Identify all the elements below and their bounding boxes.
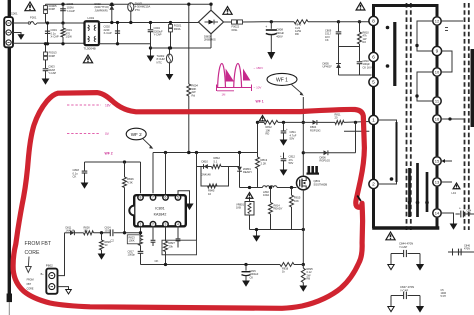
svg-text:NTC: NTC <box>157 60 162 64</box>
svg-text:400V: 400V <box>276 34 283 38</box>
fusible resistor F0005 <box>45 4 47 23</box>
warning triangle transformer top <box>356 3 365 10</box>
svg-text:PTC: PTC <box>135 8 140 12</box>
wire thick bottom return bar <box>372 226 439 229</box>
IC801 pin 7 <box>150 195 155 200</box>
svg-text:READY: READY <box>274 207 283 211</box>
wire Vref node <box>85 161 141 163</box>
wire bridge top to degauss <box>210 4 212 10</box>
secondary winding loop 12-9 <box>417 21 433 51</box>
fuse F001 <box>13 22 28 24</box>
svg-text:RB: RB <box>307 277 311 281</box>
IC801 pin 4 <box>175 222 180 227</box>
right edge winding bar <box>471 49 474 127</box>
IC801 pin 3 <box>163 222 168 227</box>
transformer pin 15 <box>433 157 441 165</box>
svg-text:10 1: 10 1 <box>467 213 472 216</box>
svg-text:6: 6 <box>372 55 375 61</box>
wire pin 12 output <box>441 20 463 22</box>
svg-text:100A: 100A <box>263 193 269 197</box>
svg-text:1N4148: 1N4148 <box>66 229 75 232</box>
svg-text:Y-CAP: Y-CAP <box>399 245 407 249</box>
waveform WF2 dashed level 0V <box>67 133 100 135</box>
wire pin 14 to ground <box>441 213 453 224</box>
svg-text:8: 8 <box>372 19 375 25</box>
svg-text:CORE: CORE <box>25 250 41 256</box>
transformer pin 1 <box>369 115 378 124</box>
wire pin 1 drop <box>140 227 142 233</box>
secondary winding column <box>436 26 439 46</box>
resistor R813 <box>257 122 259 157</box>
wire IC Vcc riser pin7 <box>152 153 154 194</box>
warning triangle at bridge <box>223 7 232 15</box>
ground at IC pin 5 <box>178 191 190 204</box>
svg-text:2N4148: 2N4148 <box>202 173 212 177</box>
svg-text:13: 13 <box>435 179 440 184</box>
svg-text:X-CAP: X-CAP <box>51 35 59 39</box>
svg-text:TL5004B: TL5004B <box>84 46 96 50</box>
op-amp IC801 KA3842 PWM controller <box>134 195 186 226</box>
svg-text:1: 1 <box>372 118 375 124</box>
wire Q801 source drop <box>302 190 304 265</box>
wire aux stub <box>344 130 369 132</box>
primary winding bar <box>393 22 396 86</box>
svg-text:FROM FBT: FROM FBT <box>25 241 52 247</box>
transformer pin 12 <box>433 17 441 25</box>
wire pin 6 riser <box>165 153 167 195</box>
capacitor C808 bulk <box>270 20 273 23</box>
svg-text:WF 1: WF 1 <box>276 77 288 83</box>
wire gate drive <box>240 187 263 189</box>
capacitor C813 under pin 4 <box>177 227 179 238</box>
resistor R823 under pin 1 <box>140 233 142 235</box>
svg-text:CK: CK <box>73 175 77 179</box>
svg-text:4: 4 <box>177 222 179 226</box>
svg-text:103J: 103J <box>105 229 111 232</box>
transformer pin 11 <box>433 97 441 105</box>
transformer pin 2 <box>369 179 378 188</box>
svg-text:JUMP(WR): JUMP(WR) <box>95 8 108 12</box>
svg-text:12: 12 <box>435 18 440 23</box>
svg-text:10: 10 <box>435 69 440 74</box>
connector SC001 <box>4 17 13 47</box>
svg-text:C2: C2 <box>111 239 115 243</box>
svg-text:5.1: 5.1 <box>214 159 218 163</box>
wire pin 16 output <box>441 118 464 120</box>
wire top degauss <box>46 3 212 5</box>
svg-text:2.2K: 2.2K <box>261 161 267 165</box>
wire B+ rail <box>262 21 294 23</box>
wire pins 9-10 loop <box>441 51 452 72</box>
wire B+ to pin 8 <box>339 21 370 23</box>
fusible resistor F0021 <box>170 23 172 49</box>
fusible resistor F0013 with C003 Y-cap to ground <box>45 44 47 52</box>
IC801 pin 8 <box>138 195 143 200</box>
warning triangle pin 13 <box>453 183 460 189</box>
zener ZD801 <box>239 153 241 167</box>
svg-text:KA3842: KA3842 <box>154 213 167 217</box>
IC801 pin 1 <box>138 222 143 227</box>
svg-text:Rd: Rd <box>363 40 367 44</box>
svg-text:1KB: 1KB <box>236 206 241 210</box>
wire pin 13 output <box>441 181 452 183</box>
svg-text:CORE: CORE <box>27 287 34 290</box>
svg-text:FROM: FROM <box>27 279 34 282</box>
capacitor C846 right edge <box>448 251 474 253</box>
capacitor C005 <box>62 4 64 23</box>
warning triangle top-left <box>25 2 35 11</box>
wire pin 15 output <box>441 160 452 162</box>
svg-text:+: + <box>280 154 282 158</box>
wire AC line1 after L001 <box>99 22 199 24</box>
secondary winding bars <box>408 168 411 217</box>
waveform WF1 flyback pulses <box>218 64 226 88</box>
transformer pin 13 <box>433 178 441 186</box>
svg-text:D810: D810 <box>202 160 209 164</box>
svg-text:WF 2: WF 2 <box>131 132 142 137</box>
svg-text:+: + <box>459 207 461 211</box>
warning triangle gate <box>246 193 253 199</box>
aux winding loop <box>378 120 397 184</box>
svg-text:WF 2: WF 2 <box>105 152 113 156</box>
capacitor C817 <box>140 246 142 251</box>
svg-text:9: 9 <box>436 49 439 55</box>
transformer pin 6 <box>369 52 378 61</box>
capacitor C809 snubber <box>337 20 340 23</box>
svg-text:CK 1KV: CK 1KV <box>363 65 372 69</box>
svg-text:2: 2 <box>152 222 154 226</box>
wire Q801 drain riser <box>302 97 304 176</box>
capacitor C815 <box>245 265 247 271</box>
callout WF 2 oval <box>126 128 146 140</box>
transformer pin 10 <box>433 68 441 76</box>
wire feedback left drop <box>196 153 198 241</box>
svg-text:Y-CAP: Y-CAP <box>154 33 162 37</box>
capacitor C843 right edge <box>456 213 460 215</box>
svg-text:Y-CAP: Y-CAP <box>67 9 75 13</box>
svg-text:RGP10G: RGP10G <box>320 159 331 163</box>
resistor R825 sense <box>302 265 304 269</box>
black tick at red kink <box>357 196 361 202</box>
thermistor TH002 NTC to ground <box>166 54 172 63</box>
svg-text:2KBB40S: 2KBB40S <box>204 38 216 42</box>
resistor R804 startup <box>188 4 190 84</box>
warning triangle Vcc rail <box>259 116 265 121</box>
wire pin 8 riser <box>140 162 142 193</box>
svg-text:16: 16 <box>435 116 440 121</box>
svg-text:50V: 50V <box>289 161 294 165</box>
waveform WF2 dashed level 18V <box>67 104 101 106</box>
svg-text:6: 6 <box>165 196 167 200</box>
secondary winding loop 10-11 <box>417 72 433 101</box>
svg-text:IC801: IC801 <box>155 207 165 211</box>
wire AC line1 to L001 <box>46 22 85 24</box>
thermistor TH001 PTC <box>128 3 134 12</box>
svg-text:180: 180 <box>84 229 89 232</box>
mosfet Q801 <box>297 176 311 190</box>
wire P802 pin1 <box>58 233 65 276</box>
svg-text:X-CAP: X-CAP <box>104 31 112 35</box>
svg-text:2: 2 <box>372 182 375 188</box>
svg-text:15: 15 <box>435 158 440 163</box>
diode D810 with R842 and R845 loop <box>197 166 202 168</box>
resistor R814 <box>270 188 272 203</box>
box outline under IC <box>162 240 197 255</box>
wire gate network bottom <box>250 229 304 231</box>
heatsink Q801 <box>307 173 320 175</box>
wire snubber mid <box>339 46 360 48</box>
transformer core dashed lines right <box>464 3 466 230</box>
transformer pin 16 <box>433 115 441 123</box>
resistor R829 to ground <box>101 233 103 240</box>
svg-text:+: + <box>286 127 288 131</box>
svg-text:5 0H: 5 0H <box>441 295 446 298</box>
svg-text:UF4007: UF4007 <box>323 65 333 69</box>
svg-text:FBT: FBT <box>27 283 32 286</box>
wire AC line2 after L001 <box>99 43 151 45</box>
capacitor C810 <box>359 47 361 62</box>
svg-text:L001: L001 <box>88 16 95 20</box>
transformer core dashed lines <box>406 3 408 230</box>
ground at SC001 middle pin <box>11 33 21 35</box>
capacitor C811 <box>283 122 285 130</box>
diode D805 <box>338 47 340 64</box>
svg-text:Y-CAP: Y-CAP <box>400 288 408 292</box>
svg-text:5: 5 <box>372 80 375 86</box>
svg-text:CK: CK <box>155 259 159 263</box>
svg-text:CK: CK <box>250 275 254 279</box>
jumper diode D002 <box>111 4 113 22</box>
svg-text:~ 180V: ~ 180V <box>254 66 264 70</box>
svg-text:470N: 470N <box>464 248 470 251</box>
transformer pin 5 <box>369 77 378 86</box>
resistor R827 under pin 3 <box>165 227 167 241</box>
resistor R826 <box>124 162 126 177</box>
bridge rectifier D800 <box>199 10 224 34</box>
svg-text:003P: 003P <box>49 7 56 11</box>
IC801 pin 2 <box>150 222 155 227</box>
wire transformer top link <box>374 6 438 17</box>
svg-text:10K: 10K <box>294 199 299 203</box>
callout WF 1 oval <box>267 73 297 85</box>
svg-text:14: 14 <box>435 210 440 215</box>
svg-text:7: 7 <box>152 196 154 200</box>
svg-text:1: 1 <box>140 222 142 226</box>
transformer pin 14 <box>433 209 441 217</box>
svg-text:50V: 50V <box>290 137 295 141</box>
svg-text:SSS7N60B: SSS7N60B <box>314 182 328 186</box>
svg-text:~ 10V: ~ 10V <box>254 85 262 89</box>
wire AC line2 <box>13 42 85 44</box>
svg-text:8: 8 <box>140 196 142 200</box>
capacitor C002 X-cap <box>117 23 119 44</box>
svg-text:RD: RD <box>266 132 270 136</box>
capacitor C001 <box>47 23 49 44</box>
wire pin 2 drop <box>152 227 154 240</box>
resistor R001 <box>62 23 64 28</box>
svg-text:18V: 18V <box>105 104 112 108</box>
transformer primary winding column <box>372 26 375 52</box>
warning triangle secondary ground <box>386 232 395 240</box>
svg-text:P802: P802 <box>46 264 53 268</box>
svg-text:003L: 003L <box>232 28 238 32</box>
wire Vcc node <box>153 152 258 154</box>
svg-text:100K: 100K <box>129 239 135 243</box>
svg-text:WF 1: WF 1 <box>256 100 264 104</box>
svg-text:LF4: LF4 <box>452 191 457 195</box>
resistor R840 <box>294 20 308 24</box>
svg-text:RD: RD <box>295 32 299 36</box>
svg-text:4.3K: 4.3K <box>127 180 133 184</box>
inductor L001 line filter <box>85 21 100 45</box>
wire current sense <box>65 232 71 234</box>
svg-text:Rd: Rd <box>192 93 196 97</box>
wire source sense rail <box>141 264 281 266</box>
svg-text:RGP10G: RGP10G <box>310 128 321 132</box>
wire AC line2 to bridge <box>150 44 152 48</box>
svg-text:003P: 003P <box>49 54 56 58</box>
svg-text:Y-CAP: Y-CAP <box>48 71 56 75</box>
svg-text:5: 5 <box>177 196 179 200</box>
capacitor C004 Y-cap to ground <box>150 23 152 30</box>
svg-text:10: 10 <box>208 192 211 196</box>
capacitor C812 <box>283 153 285 159</box>
capacitor C818 <box>84 162 86 171</box>
svg-text:SC001: SC001 <box>9 12 18 16</box>
svg-text:3: 3 <box>165 222 167 226</box>
svg-text:1/2W: 1/2W <box>66 35 73 39</box>
svg-text:R03A: R03A <box>174 27 181 31</box>
potentiometer VR801 <box>249 199 251 202</box>
warning triangle left-mid <box>83 55 92 63</box>
svg-text:20k: 20k <box>169 244 174 248</box>
resistor R810 <box>358 20 361 23</box>
svg-text:F001: F001 <box>30 16 37 20</box>
svg-text:+: + <box>265 25 267 29</box>
IC801 pin 6 <box>163 195 168 200</box>
svg-text:1000p: 1000p <box>128 253 136 257</box>
wire P802 pin2 to ground <box>58 287 69 290</box>
fusible resistor F0022 <box>224 21 232 23</box>
svg-text:1M: 1M <box>222 93 227 97</box>
wire AC mains bus bar <box>8 0 11 294</box>
IC801 pin 5 <box>175 195 180 200</box>
red marker loop annotation <box>13 93 364 309</box>
transformer pin 8 <box>369 16 378 25</box>
resistor R815 <box>291 188 293 196</box>
svg-text:READY: READY <box>243 170 252 174</box>
diode D806 clamp <box>302 151 305 154</box>
svg-text:CK: CK <box>325 38 329 42</box>
wire snubber bottom <box>339 74 372 76</box>
wire Vcc rail <box>258 121 265 123</box>
transformer pin 9 <box>432 46 441 55</box>
ground stub gate network <box>256 230 258 237</box>
